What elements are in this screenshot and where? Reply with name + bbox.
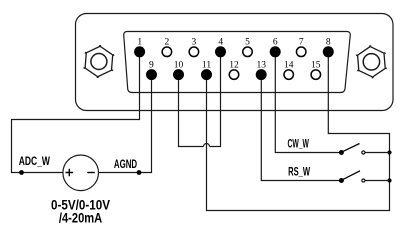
svg-text:3: 3 [192,37,197,47]
svg-text:2: 2 [165,37,170,47]
pin 6 [270,37,281,57]
connector mounting nut right [355,45,387,79]
wire pin1 to ADC_W node [12,52,140,173]
pin 1 [134,37,145,57]
wire pin10 to pin4 with hop over pin11 wire [179,52,221,147]
junction dot bus CW [387,150,391,154]
svg-text:4: 4 [218,37,223,47]
pin 7 [296,37,306,56]
pin 5 [243,37,253,56]
svg-text:14: 14 [284,61,294,71]
junction dot ADC_W terminal [19,170,24,175]
svg-text:7: 7 [299,37,304,47]
svg-text:6: 6 [273,37,278,47]
pin 3 [189,37,199,56]
junction dot AGND terminal [137,170,142,175]
pin 9 [146,61,157,80]
wire AGND node to pin9 [99,75,152,173]
svg-text:15: 15 [311,61,321,71]
wire pin6 to CW_W switch [275,52,339,153]
pin 10 [173,61,184,80]
svg-text:11: 11 [202,61,211,71]
wire pin11 to bottom bus to right bus to pin8 [207,52,390,211]
pin 2 [162,37,172,56]
svg-text:8: 8 [326,37,331,47]
switch CW_W [339,144,390,156]
svg-text:1: 1 [137,37,142,47]
svg-text:5: 5 [245,37,250,47]
svg-text:ADC_W: ADC_W [19,154,51,168]
svg-text:CW_W: CW_W [288,137,310,151]
pin 15 [311,61,321,80]
svg-text:13: 13 [256,61,266,71]
voltage source V1 [63,155,99,191]
wire pin13 to RS_W switch [261,75,339,181]
connector D-face outline [124,32,351,93]
pin 12 [229,61,239,80]
connector mounting nut left [83,44,115,78]
svg-text:/4-20mA: /4-20mA [59,211,103,226]
pin 8 [323,37,334,57]
pin 4 [215,37,226,57]
connector J1 shell [76,14,394,111]
junction dot bus RS [387,178,391,182]
svg-text:9: 9 [149,61,154,71]
svg-text:AGND: AGND [114,157,137,171]
pin 13 [256,61,267,80]
svg-text:12: 12 [229,61,239,71]
svg-text:10: 10 [174,61,184,71]
pin 11 [201,61,212,80]
switch RS_W [339,171,390,183]
pin 14 [284,61,294,80]
svg-text:RS_W: RS_W [288,165,310,179]
